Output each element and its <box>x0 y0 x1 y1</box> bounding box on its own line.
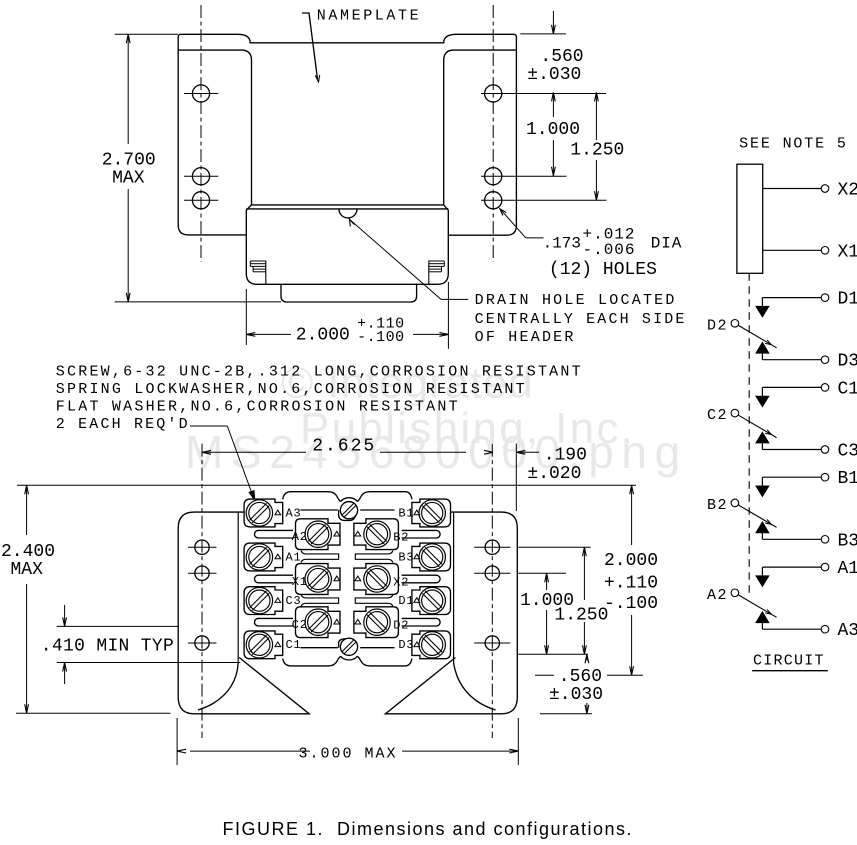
svg-text:+.110: +.110 <box>604 574 658 594</box>
svg-text:±.030: ±.030 <box>549 685 603 705</box>
svg-text:FIGURE 1. Dimensions and conf: FIGURE 1. Dimensions and configurations. <box>223 819 632 839</box>
svg-text:C1: C1 <box>838 379 857 399</box>
svg-text:2.000: 2.000 <box>296 325 350 345</box>
svg-text:NAMEPLATE: NAMEPLATE <box>317 8 421 25</box>
svg-text:D1: D1 <box>398 594 414 608</box>
svg-text:2.400: 2.400 <box>1 542 55 562</box>
svg-text:.173: .173 <box>543 235 581 253</box>
svg-text:B1: B1 <box>838 469 857 489</box>
svg-text:A3: A3 <box>286 506 302 520</box>
svg-text:SEE NOTE 5: SEE NOTE 5 <box>739 136 848 153</box>
svg-text:B3: B3 <box>838 531 857 551</box>
svg-text:FLAT WASHER,NO.6,CORROSION RES: FLAT WASHER,NO.6,CORROSION RESISTANT <box>56 398 460 415</box>
svg-text:2 EACH REQ'D: 2 EACH REQ'D <box>56 416 190 433</box>
svg-text:A3: A3 <box>838 621 857 641</box>
svg-text:B3: B3 <box>398 550 414 564</box>
svg-text:C2: C2 <box>292 618 308 632</box>
svg-text:D2: D2 <box>707 317 728 334</box>
svg-text:A1: A1 <box>838 559 857 579</box>
svg-text:X2: X2 <box>393 575 409 589</box>
svg-text:A1: A1 <box>286 550 302 564</box>
svg-text:.410 MIN TYP: .410 MIN TYP <box>41 637 174 657</box>
svg-text:.190: .190 <box>544 446 587 466</box>
svg-text:±.020: ±.020 <box>527 464 581 484</box>
svg-text:2.625: 2.625 <box>312 437 374 457</box>
svg-text:1.250: 1.250 <box>570 141 624 161</box>
svg-text:A2: A2 <box>292 530 308 544</box>
svg-text:DRAIN HOLE LOCATED: DRAIN HOLE LOCATED <box>475 292 677 309</box>
svg-text:.560: .560 <box>540 47 583 67</box>
svg-text:1.250: 1.250 <box>554 606 608 626</box>
svg-text:C3: C3 <box>286 594 302 608</box>
svg-text:C2: C2 <box>707 407 728 424</box>
svg-text:B2: B2 <box>707 497 728 514</box>
svg-text:X2: X2 <box>838 181 857 201</box>
svg-text:MAX: MAX <box>11 560 44 580</box>
svg-text:OF HEADER: OF HEADER <box>475 329 576 346</box>
svg-text:±.030: ±.030 <box>527 65 581 85</box>
svg-text:SCREW,6-32 UNC-2B,.312 LONG,CO: SCREW,6-32 UNC-2B,.312 LONG,CORROSION RE… <box>56 363 583 380</box>
svg-text:A2: A2 <box>707 587 728 604</box>
svg-text:C3: C3 <box>838 442 857 462</box>
svg-text:D3: D3 <box>838 352 857 372</box>
svg-text:2.000: 2.000 <box>604 551 658 571</box>
svg-text:X1: X1 <box>292 575 308 589</box>
svg-text:B1: B1 <box>398 506 414 520</box>
svg-text:SPRING LOCKWASHER,NO.6,CORROSI: SPRING LOCKWASHER,NO.6,CORROSION RESISTA… <box>56 381 527 398</box>
svg-text:CENTRALLY EACH SIDE: CENTRALLY EACH SIDE <box>475 311 687 328</box>
svg-text:1.000: 1.000 <box>526 120 580 140</box>
svg-text:-.006: -.006 <box>583 241 636 259</box>
svg-text:.560: .560 <box>559 667 602 687</box>
svg-text:DIA: DIA <box>651 234 683 252</box>
svg-text:-.100: -.100 <box>604 594 658 614</box>
svg-text:B2: B2 <box>393 531 409 545</box>
svg-text:(12) HOLES: (12) HOLES <box>549 260 657 280</box>
svg-text:3.000 MAX: 3.000 MAX <box>299 746 398 763</box>
svg-text:-.100: -.100 <box>357 329 405 346</box>
svg-text:X1: X1 <box>838 242 857 262</box>
svg-text:2.700: 2.700 <box>102 150 156 170</box>
svg-text:D2: D2 <box>393 619 409 633</box>
svg-text:D1: D1 <box>838 290 857 310</box>
svg-text:MAX: MAX <box>112 169 145 189</box>
svg-text:CIRCUIT: CIRCUIT <box>753 653 825 670</box>
svg-text:C1: C1 <box>286 638 302 652</box>
svg-text:D3: D3 <box>398 638 414 652</box>
